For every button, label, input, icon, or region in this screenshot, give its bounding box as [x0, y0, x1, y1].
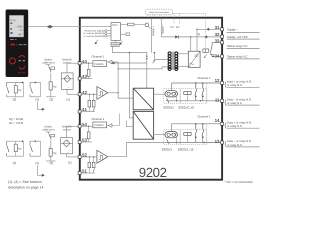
svg-text:E2PROM: E2PROM [112, 44, 119, 47]
svg-text:or relay N.C.: or relay N.C. [227, 124, 243, 128]
svg-text:Channel 2: Channel 2 [198, 114, 211, 118]
svg-text:(1)..(4) = See function: (1)..(4) = See function [8, 180, 42, 184]
terminal 53 [78, 138, 87, 144]
wire E2PROM to isolator 1 [112, 47, 147, 89]
AC/DC converter [188, 51, 200, 67]
terminal 33 [215, 38, 260, 48]
svg-text:9202x1: 9202x1 [163, 106, 174, 110]
terminal 41 [78, 107, 87, 113]
transformer feed drop [154, 52, 168, 60]
indicator lamp [145, 23, 151, 29]
svg-text:Supply –: Supply – [227, 27, 238, 31]
display screen [9, 15, 23, 37]
E2PROM memory [111, 40, 119, 46]
CPU U1 [111, 23, 121, 41]
svg-text:or relay N.C.: or relay N.C. [227, 83, 243, 87]
svg-text:Supply +: Supply + [152, 26, 155, 36]
wire winding bottom return [118, 67, 168, 69]
wire terminal 53 [81, 141, 92, 143]
relay ch2 dashed box B [181, 130, 207, 145]
terminal 34 [212, 54, 259, 59]
comparator amp ch2 [97, 150, 108, 163]
svg-text:Supply +24 VDC: Supply +24 VDC [227, 35, 248, 39]
svg-text:cable error: cable error [42, 61, 55, 64]
NAMUR sensor ch2 label [62, 126, 72, 132]
svg-text:(3): (3) [13, 161, 17, 165]
svg-text:9202x1: 9202x1 [162, 147, 173, 151]
terminal 51 [78, 169, 87, 175]
relay ch2 coil stub [186, 135, 188, 142]
isolator2 to relay2 wire [154, 134, 165, 136]
channel 1 transmitter box [93, 61, 107, 67]
connector plug symbol [47, 25, 53, 29]
svg-text:* NC = no connection: * NC = no connection [225, 180, 254, 184]
channel 2 transmitter box [93, 122, 107, 128]
svg-text:Rp: Rp [18, 148, 22, 151]
wire transformer to converter bottom [178, 65, 188, 67]
svg-text:Transm.: Transm. [94, 62, 104, 66]
amp ch1 output wire [108, 92, 118, 94]
svg-text:or relay N.C.: or relay N.C. [227, 143, 243, 147]
svg-text:CPU: CPU [112, 24, 118, 27]
svg-text:Rp: Rp [53, 86, 57, 89]
svg-text:Power rail connections: Power rail connections [149, 11, 170, 14]
status relay contact [210, 42, 220, 56]
keypad middle dashes [19, 60, 25, 61]
adjust arrow left of CPU [95, 40, 98, 44]
ch2 divider resistor B with contact [92, 156, 95, 172]
main enclosure box 9202 [80, 18, 222, 180]
wire terminal 41 [81, 111, 95, 113]
svg-text:34: 34 [215, 54, 220, 59]
svg-text:In / out bus (NAMUR): In / out bus (NAMUR) [83, 35, 104, 38]
resistor Rp ch2 [46, 149, 57, 162]
svg-text:(3): (3) [13, 98, 17, 102]
wire terminal 51 [81, 172, 95, 174]
status relay adjust arrow [204, 54, 207, 57]
svg-text:(1): (1) [68, 161, 72, 165]
CPU pin row 2 [83, 32, 111, 35]
svg-text:51: 51 [82, 169, 87, 174]
relay ch2 stadium feed [176, 138, 178, 143]
transformer T1 secondary winding [175, 52, 178, 71]
option jumper right of CPU [121, 33, 130, 36]
wire terminal 42 to amp [81, 93, 97, 95]
arrow at transformer feed [152, 60, 155, 63]
NAMUR sensor ch1 label [62, 58, 72, 64]
resistor ch2 54-53 [87, 126, 90, 142]
svg-text:Remote bus (option): Remote bus (option) [84, 30, 104, 33]
switch cable error ch1 label [42, 58, 55, 64]
supply plus rail [152, 18, 155, 52]
terminal 43 [78, 74, 87, 80]
isolator barrier 2 [133, 111, 153, 139]
terminal 44 [78, 59, 87, 65]
relay ch1 dashed box A [164, 89, 180, 104]
wire display to CPU [28, 26, 111, 28]
CPU pin row 1 [84, 30, 111, 33]
terminal 11 [215, 97, 260, 105]
function description footnote [8, 180, 43, 190]
ch2 divider resistor A [88, 156, 91, 173]
comparator amp ch1 [97, 87, 108, 100]
terminal 13 [215, 139, 260, 148]
power rail dashed drops [148, 13, 180, 23]
diode feed wire to terminal 32 [161, 35, 220, 51]
svg-text:cable error: cable error [42, 129, 55, 132]
channel 2 signal diode [107, 114, 134, 128]
isolator barrier 1 [133, 88, 153, 110]
NC no-connection labels [170, 26, 180, 29]
svg-text:9202x2..x5: 9202x2..x5 [178, 147, 194, 151]
NAMUR sensor ch1 [61, 63, 81, 94]
dashed error line ch2 [206, 124, 208, 144]
ch1 divider resistor A [88, 94, 91, 112]
terminal 14 [215, 118, 260, 129]
svg-text:(4): (4) [35, 161, 39, 165]
relay ch1 coil stub [186, 95, 188, 101]
svg-text:Channel 2: Channel 2 [92, 117, 105, 121]
channel 1 signal diode [107, 60, 118, 64]
svg-text:54: 54 [82, 122, 87, 127]
dashed link power rail to status relay coil [172, 13, 205, 49]
svg-text:Rp: Rp [18, 89, 22, 92]
svg-text:NC*: NC* [176, 26, 180, 29]
svg-text:NC*: NC* [170, 26, 174, 29]
svg-text:Transm.: Transm. [94, 123, 104, 127]
switch cable error ch2 [46, 132, 55, 149]
switch with Rp option ch1 [7, 82, 24, 97]
svg-text:9202: 9202 [139, 165, 167, 180]
terminal 42 [78, 90, 87, 96]
isolator1 to relay1 wire [154, 93, 165, 95]
relay ch2 coil [184, 132, 191, 135]
terminal 12 [215, 78, 260, 88]
relay ch2 symbol [165, 124, 178, 144]
svg-text:sensor: sensor [63, 129, 71, 132]
wire with left arrow [111, 62, 146, 65]
svg-text:Channel 1: Channel 1 [198, 76, 211, 80]
svg-text:14: 14 [215, 118, 220, 123]
svg-text:(4): (4) [35, 98, 39, 102]
svg-text:31: 31 [215, 25, 220, 30]
relay ch1 stadium feed [176, 97, 178, 101]
wire terminal 31 to converter [196, 28, 220, 51]
relay ch1 dashed box B [181, 89, 207, 104]
relay ch1 bottom wire to 11 [166, 100, 220, 102]
wire terminal 44 to transm [81, 62, 93, 64]
NAMUR sensor ch2 [61, 126, 82, 157]
keypad round key [9, 58, 15, 64]
svg-text:4): 4) [198, 32, 201, 36]
svg-text:44: 44 [82, 59, 87, 64]
wire terminal 43 [81, 78, 92, 80]
wire terminal 54 to transm [81, 125, 93, 127]
CPU pin row 3 [83, 35, 111, 38]
amp ch2 output wire [108, 143, 166, 157]
svg-text:42: 42 [82, 90, 87, 95]
svg-text:(2): (2) [50, 98, 54, 102]
wire terminal 33 [212, 41, 220, 43]
terminal 54 [78, 122, 87, 128]
svg-text:11: 11 [215, 98, 220, 103]
svg-text:9202x2..x5: 9202x2..x5 [178, 106, 194, 110]
svg-text:Status relay N.C.: Status relay N.C. [227, 44, 248, 48]
relay ch1 coil [184, 92, 191, 95]
plain switch option ch1 [30, 82, 41, 97]
terminal 31 [215, 25, 260, 33]
relay ch1 symbol [165, 83, 178, 103]
transformer T1 primary winding [168, 52, 171, 71]
switch with Rp option ch2 [7, 141, 24, 157]
svg-text:43: 43 [82, 74, 87, 79]
svg-text:41: 41 [82, 107, 87, 112]
svg-text:In / out bus (NAMUR): In / out bus (NAMUR) [83, 32, 104, 35]
svg-text:(2): (2) [50, 161, 54, 165]
continuation wire ch2 to 51 [38, 165, 45, 177]
relay ch2 contacts [195, 124, 204, 143]
svg-text:12: 12 [215, 78, 220, 83]
plain switch option ch2 [30, 141, 41, 157]
svg-text:description on page 14: description on page 14 [8, 186, 43, 190]
svg-text:33: 33 [215, 38, 220, 43]
dashed error line ch1 [206, 84, 208, 104]
relay ch2 top wire to 14 [172, 123, 221, 125]
device logo specks [10, 39, 16, 40]
supply minus rail [161, 18, 164, 37]
keypad arc keys [19, 56, 25, 70]
terminal 52 [78, 152, 87, 158]
svg-text:−12: −12 [19, 29, 24, 32]
resistor ch1 44-43 [87, 63, 90, 79]
wire to isolator 2 left [129, 53, 133, 118]
status relay coil [203, 49, 209, 52]
svg-text:13: 13 [215, 139, 220, 144]
svg-text:Channel 1: Channel 1 [92, 55, 105, 59]
relay ch2 bottom wire to 13 [166, 142, 220, 144]
continuation wire ch1 to 41 [38, 102, 45, 111]
resistor Rp ch1 [46, 82, 57, 97]
power rail connections box [146, 9, 173, 15]
return branch to isolator 1 [117, 62, 133, 98]
svg-text:(1): (1) [66, 98, 70, 102]
relay ch1 top wire to 12 [172, 82, 221, 84]
svg-text:C·A₁: C·A₁ [10, 19, 15, 22]
svg-text:or relay N.C.: or relay N.C. [227, 101, 243, 105]
Rp Rs values note [9, 117, 23, 125]
remote display unit body [6, 10, 29, 78]
resistor R top [121, 23, 146, 26]
keypad bottom red marks [18, 72, 25, 73]
wire terminal 52 to amp [81, 156, 97, 158]
wire transformer to converter top [178, 53, 188, 55]
svg-text:Rp: Rp [53, 152, 57, 155]
terminal 32 [215, 32, 260, 39]
relay ch2 dashed box A [164, 130, 180, 145]
switch cable error ch2 label [42, 126, 55, 132]
svg-text:52: 52 [82, 152, 87, 157]
transformer core [172, 52, 175, 70]
svg-text:Status relay N.C.: Status relay N.C. [227, 55, 248, 59]
svg-text:32: 32 [215, 32, 220, 37]
ch1 divider resistor B with contact [92, 94, 95, 112]
svg-text:097: 097 [18, 33, 23, 36]
svg-text:53: 53 [82, 138, 87, 143]
programming arrow [120, 41, 122, 45]
svg-text:.25%: .25% [16, 25, 23, 28]
relay ch1 contacts [195, 83, 204, 101]
switch cable error ch1 [46, 65, 55, 82]
svg-text:Rs = 750 Ω: Rs = 750 Ω [9, 121, 23, 125]
svg-text:Supply –: Supply – [162, 24, 165, 34]
keypad red indicator row [10, 44, 26, 46]
